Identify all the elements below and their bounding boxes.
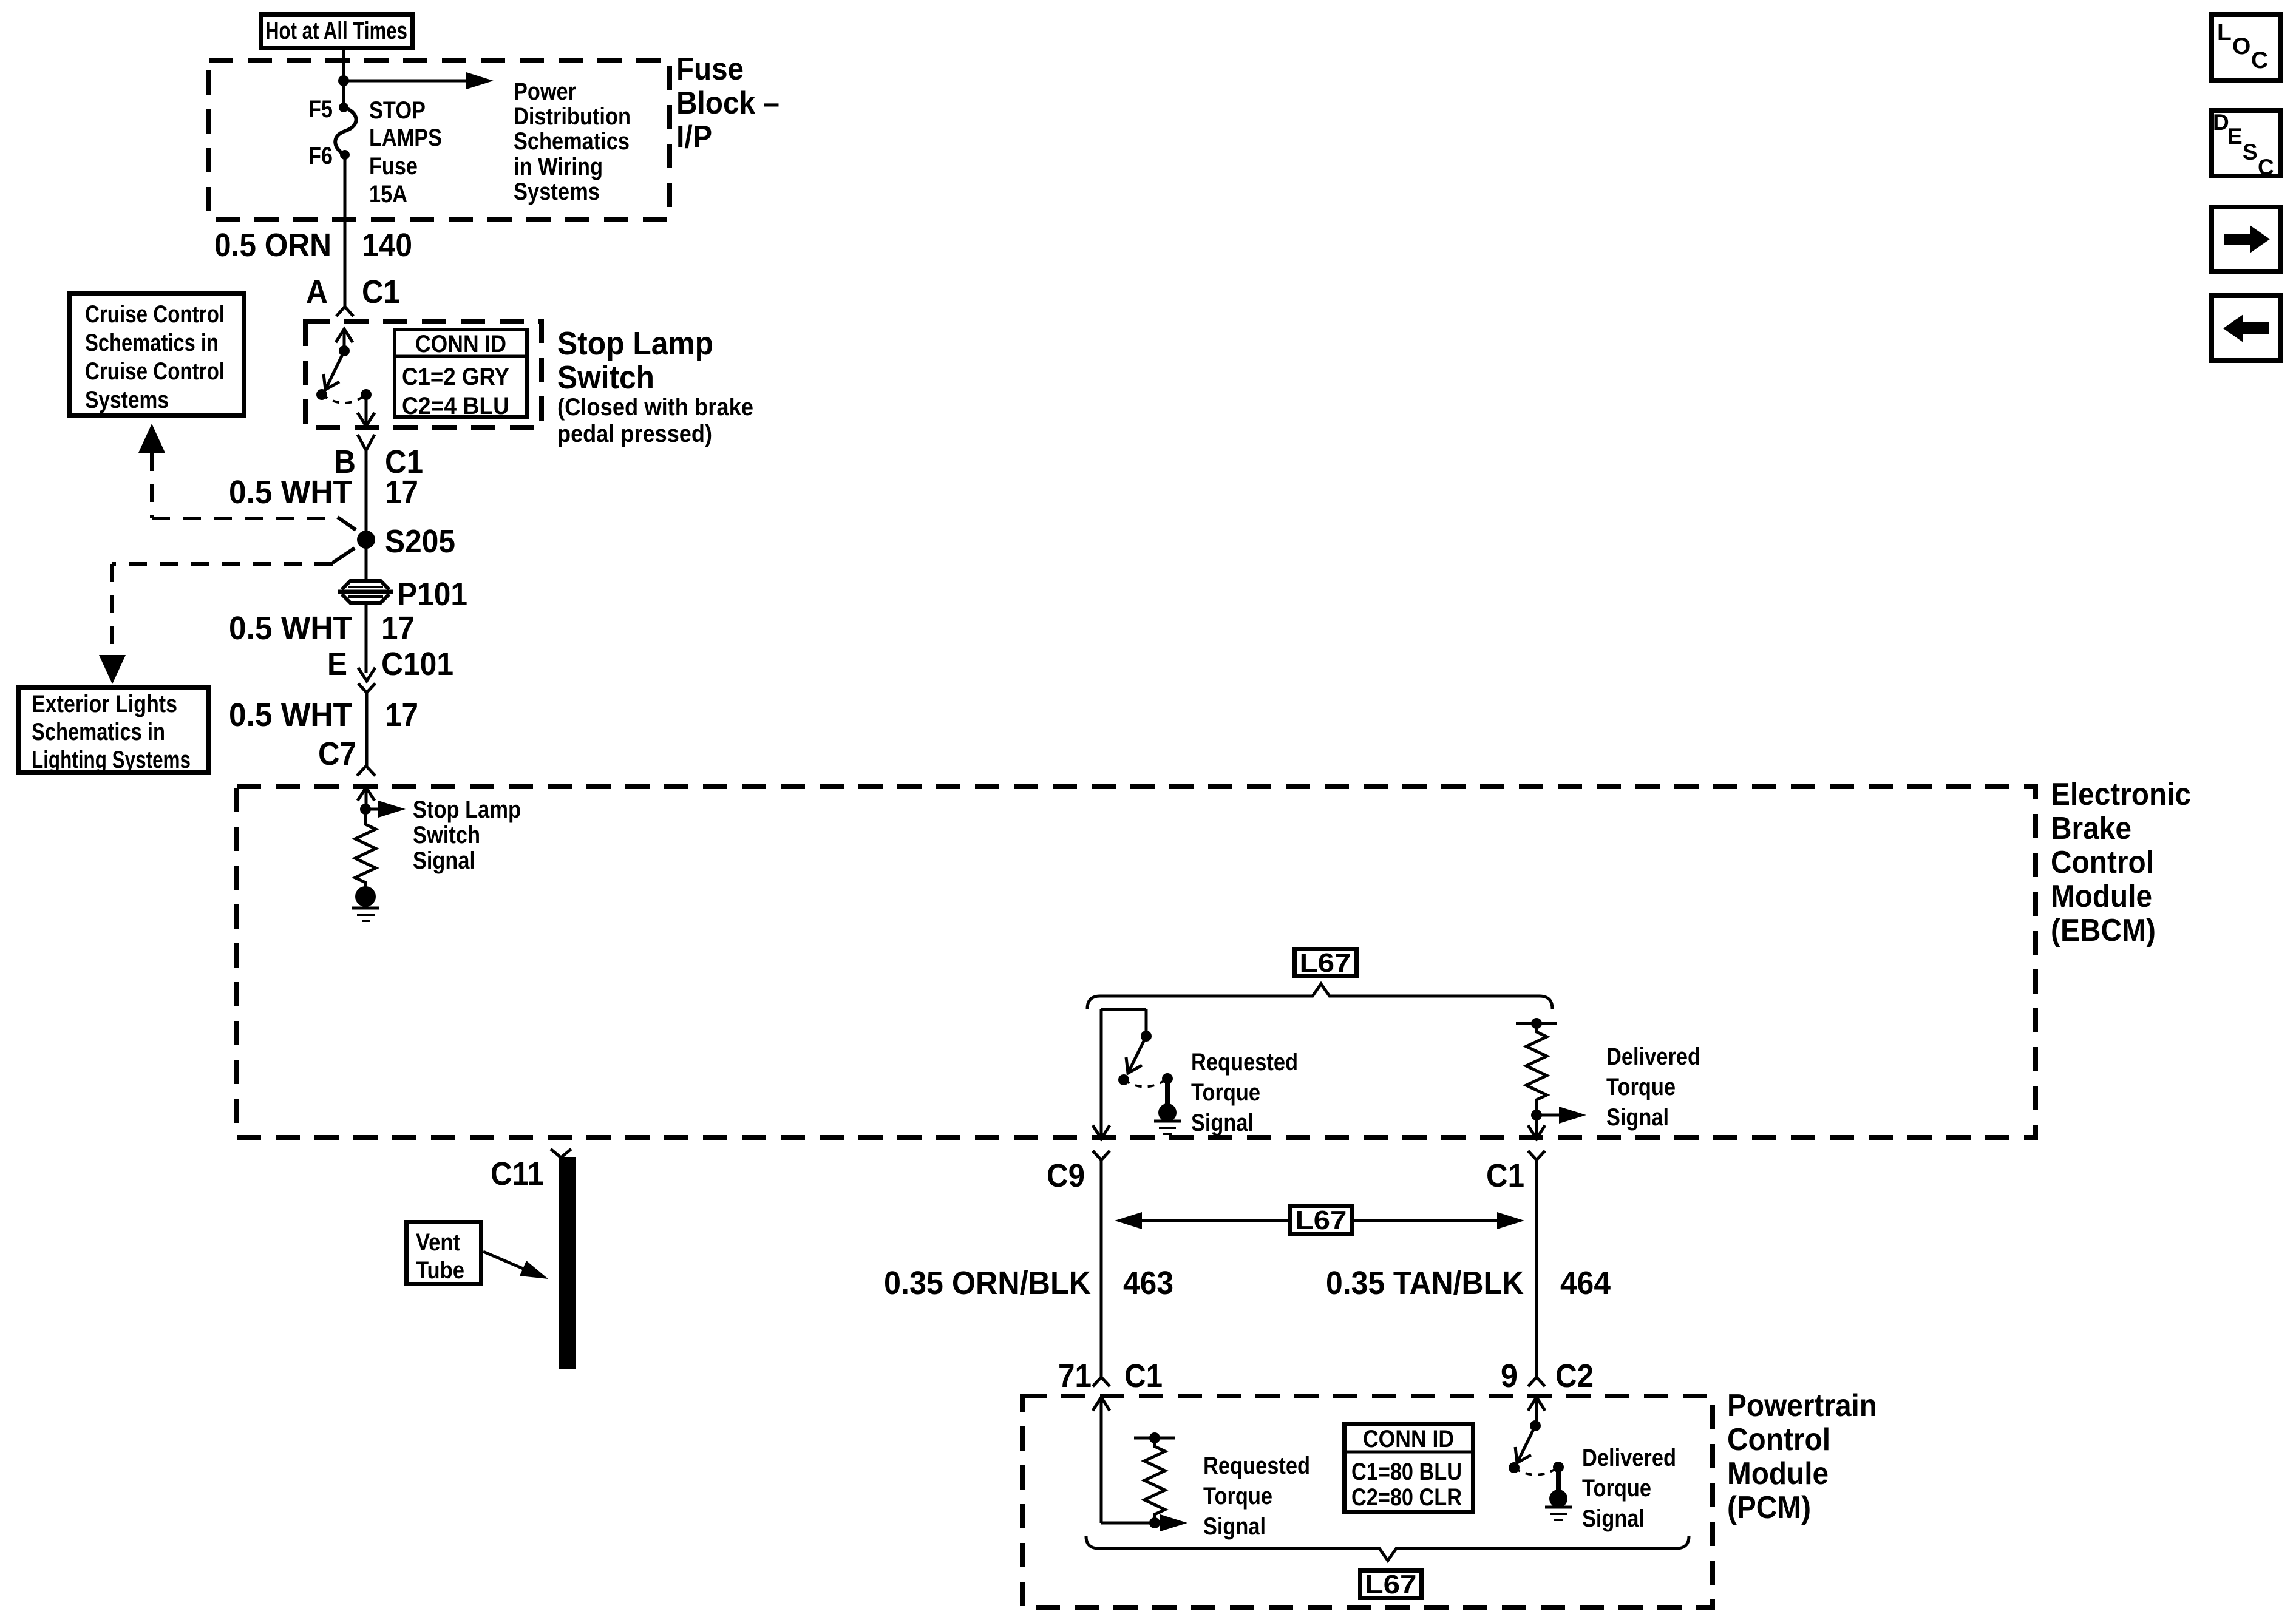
EBCM delivered torque resistor: [1526, 1023, 1547, 1115]
PCM delivered torque ground: [1545, 1490, 1572, 1520]
svg-text:C: C: [2258, 155, 2274, 180]
svg-text:A: A: [306, 274, 328, 310]
svg-text:in Wiring: in Wiring: [514, 154, 603, 180]
svg-text:C2: C2: [1555, 1358, 1594, 1394]
svg-text:Torque: Torque: [1203, 1483, 1272, 1510]
svg-text:0.35 TAN/BLK: 0.35 TAN/BLK: [1326, 1265, 1524, 1301]
svg-text:O: O: [2232, 33, 2250, 59]
PCM requested torque junction dot: [1149, 1517, 1160, 1528]
EBCM requested torque switch common dot: [1141, 1031, 1152, 1042]
grouping brace for L67 signals: [1087, 984, 1552, 1009]
svg-text:Cruise Control: Cruise Control: [85, 301, 225, 328]
svg-text:Switch: Switch: [413, 822, 480, 849]
label Requested Torque Signal (PCM): [1203, 1453, 1310, 1540]
svg-text:Stop Lamp: Stop Lamp: [557, 325, 713, 362]
svg-text:Module: Module: [2051, 879, 2152, 914]
connector C101 female half: [358, 683, 375, 693]
label Electronic Brake Control Module (EBCM): [2051, 777, 2191, 948]
svg-text:Block –: Block –: [676, 86, 779, 121]
EBCM dashed box: [237, 787, 2036, 1137]
connector C1 male arrow into switch: [336, 329, 353, 351]
svg-text:Powertrain: Powertrain: [1727, 1388, 1877, 1423]
PCM delivered torque ground stub: [1556, 1467, 1561, 1490]
svg-text:C11: C11: [491, 1156, 544, 1192]
svg-text:Torque: Torque: [1582, 1475, 1651, 1502]
svg-text:CONN ID: CONN ID: [1363, 1426, 1454, 1453]
icon box previous arrow: [2212, 296, 2281, 361]
svg-text:Signal: Signal: [1203, 1513, 1266, 1540]
wire label 0.5 WHT 17 (upper): [229, 474, 418, 510]
splice S205 dot: [357, 531, 375, 549]
svg-text:(Closed with brake: (Closed with brake: [557, 394, 753, 421]
pin label 9 / connector C2 (PCM): [1501, 1358, 1594, 1394]
svg-text:Systems: Systems: [514, 178, 600, 205]
svg-text:C7: C7: [318, 736, 356, 772]
pin label B / connector C1: [334, 444, 423, 480]
svg-text:Requested: Requested: [1191, 1049, 1298, 1076]
wire label 0.5 WHT 17 (lower): [229, 697, 418, 733]
svg-text:L: L: [2217, 19, 2232, 46]
svg-text:Schematics in: Schematics in: [85, 330, 219, 356]
CONN ID table box (PCM): [1342, 1424, 1475, 1513]
pin label C9: [1047, 1158, 1085, 1194]
node junction to power distribution arrow: [338, 75, 349, 86]
svg-text:Delivered: Delivered: [1606, 1043, 1700, 1070]
svg-text:E: E: [2227, 124, 2243, 149]
PCM delivered torque fixed contact: [1509, 1462, 1520, 1473]
callout box Vent Tube: [407, 1222, 481, 1284]
svg-text:Vent: Vent: [416, 1229, 460, 1256]
pin label E / connector C101: [327, 646, 453, 682]
EBCM requested torque ground: [1154, 1103, 1181, 1134]
svg-text:464: 464: [1560, 1265, 1611, 1301]
svg-text:Brake: Brake: [2051, 811, 2131, 846]
arrow Delivered Torque Signal (EBCM): [1537, 1107, 1586, 1124]
svg-text:0.5 WHT: 0.5 WHT: [229, 474, 352, 510]
svg-text:STOP: STOP: [369, 97, 426, 124]
svg-text:Stop Lamp: Stop Lamp: [413, 796, 521, 823]
connector C11 female mark: [551, 1149, 571, 1158]
svg-text:0.5 WHT: 0.5 WHT: [229, 697, 352, 733]
label Delivered Torque Signal (PCM): [1582, 1445, 1676, 1532]
EBCM requested torque ground stub: [1165, 1079, 1170, 1104]
pointer arrow from Vent Tube box to tube: [483, 1252, 548, 1279]
CONN ID table box (stop lamp switch): [393, 330, 529, 419]
wire circuit 463 (C9 to PCM 71): [1100, 1160, 1103, 1377]
svg-text:Signal: Signal: [1582, 1505, 1645, 1532]
svg-text:C1: C1: [1486, 1158, 1524, 1194]
PCM delivered torque switch arm: [1515, 1426, 1535, 1463]
label Fuse Block - I/P: [676, 52, 779, 155]
svg-text:D: D: [2213, 110, 2229, 135]
svg-text:17: 17: [381, 610, 415, 646]
wire circuit 464 (C1 to PCM 9): [1535, 1160, 1538, 1377]
PCM requested torque resistor top bar: [1134, 1437, 1175, 1440]
svg-text:Lighting Systems: Lighting Systems: [32, 747, 191, 773]
fuse F5 terminal label: [308, 96, 333, 123]
EBCM requested torque switch arc (dashed): [1124, 1079, 1167, 1087]
svg-text:Module: Module: [1727, 1456, 1829, 1491]
svg-text:Schematics: Schematics: [514, 128, 630, 155]
svg-text:C1: C1: [1124, 1358, 1163, 1394]
connector C1 female half (EBCM): [1528, 1151, 1545, 1160]
wire label 0.5 WHT 17 (middle): [229, 610, 415, 646]
EBCM internal ground: [352, 886, 379, 921]
power label box 'Hot at All Times': [261, 15, 412, 48]
EBCM delivered torque resistor top bar: [1516, 1022, 1557, 1025]
EBCM stop lamp input junction dot: [360, 804, 371, 815]
dashed reference arrow to cruise control box: [138, 424, 356, 530]
svg-text:Requested: Requested: [1203, 1453, 1310, 1479]
connector C9 female half: [1093, 1151, 1110, 1160]
wire fuse F6 to connector A/C1: [344, 155, 347, 307]
connector C2 female half at PCM: [1528, 1377, 1545, 1386]
svg-text:S205: S205: [385, 523, 455, 560]
PCM delivered torque switch arc (dashed): [1514, 1467, 1558, 1475]
label STOP LAMPS Fuse 15A: [369, 97, 442, 208]
svg-text:Power: Power: [514, 78, 576, 105]
connector C101 male arrow half: [358, 668, 375, 681]
dashed reference line to exterior lights box: [99, 548, 355, 684]
stop lamp switch fixed contact: [316, 389, 327, 400]
wire C101 to C7: [365, 693, 369, 766]
PCM delivered torque switch common dot: [1530, 1420, 1541, 1431]
harness span arrow with L67 label: [1115, 1205, 1524, 1235]
svg-text:L67: L67: [1300, 948, 1351, 978]
svg-text:Hot at All Times: Hot at All Times: [265, 18, 407, 44]
net label box L67 (top): [1295, 948, 1357, 978]
PCM requested torque resistor: [1144, 1438, 1165, 1523]
svg-text:L67: L67: [1296, 1205, 1347, 1235]
svg-text:C9: C9: [1047, 1158, 1085, 1194]
stop lamp switch arm: [324, 351, 344, 390]
svg-text:0.5 ORN: 0.5 ORN: [214, 227, 331, 263]
svg-text:C2=4 BLU: C2=4 BLU: [402, 393, 509, 419]
stop lamp switch travel arc (dashed): [322, 395, 366, 403]
svg-text:Torque: Torque: [1191, 1079, 1260, 1106]
svg-text:P101: P101: [397, 576, 467, 612]
svg-text:Fuse: Fuse: [676, 52, 744, 87]
svg-text:pedal pressed): pedal pressed): [557, 421, 712, 447]
connector C1 female half (A): [336, 307, 353, 316]
svg-text:C1: C1: [362, 274, 400, 310]
svg-text:Fuse: Fuse: [369, 153, 418, 180]
svg-text:Systems: Systems: [85, 387, 169, 413]
stop lamp switch dashed box: [305, 322, 542, 428]
svg-text:C2=80 CLR: C2=80 CLR: [1351, 1484, 1462, 1511]
svg-text:L67: L67: [1365, 1570, 1417, 1599]
grouping brace for L67 (PCM): [1086, 1536, 1689, 1561]
EBCM requested torque fixed contact: [1118, 1074, 1129, 1085]
svg-text:0.35 ORN/BLK: 0.35 ORN/BLK: [884, 1265, 1091, 1301]
svg-text:S: S: [2243, 140, 2258, 164]
net label box L67 (PCM): [1360, 1570, 1422, 1599]
pin label 71 / connector C1 (PCM): [1058, 1358, 1163, 1394]
wire label 0.5 ORN 140: [214, 227, 412, 263]
fuse F5 terminal dot: [339, 103, 348, 112]
fuse F6 terminal label: [308, 143, 333, 169]
svg-text:Signal: Signal: [413, 847, 475, 874]
svg-text:F6: F6: [308, 143, 333, 169]
connector C1 female half at PCM: [1093, 1377, 1110, 1386]
stop lamp switch common dot: [339, 345, 350, 356]
svg-text:LAMPS: LAMPS: [369, 124, 442, 151]
svg-text:71: 71: [1058, 1358, 1092, 1394]
svg-text:Exterior Lights: Exterior Lights: [32, 691, 177, 717]
svg-text:Tube: Tube: [416, 1257, 464, 1284]
connector C1 male arrow inside PCM: [1093, 1397, 1110, 1411]
svg-text:Switch: Switch: [557, 359, 654, 396]
EBCM requested torque right contact dot: [1162, 1073, 1173, 1084]
connector C7 female half: [357, 766, 375, 776]
stop lamp switch output contact dot: [361, 389, 372, 400]
wire from Hot at All Times into fuse block: [342, 50, 345, 107]
svg-text:F5: F5: [308, 96, 333, 123]
wire label 0.35 ORN/BLK 463: [884, 1265, 1173, 1301]
svg-text:C: C: [2251, 47, 2268, 73]
svg-text:140: 140: [362, 227, 412, 263]
EBCM requested torque switch stub: [1145, 1009, 1148, 1036]
svg-text:C101: C101: [381, 646, 453, 682]
EBCM delivered torque junction dot: [1531, 1110, 1542, 1120]
connector C7 male arrow inside EBCM: [358, 787, 375, 809]
svg-text:9: 9: [1501, 1358, 1518, 1394]
svg-text:Distribution: Distribution: [514, 103, 631, 130]
icon box next arrow: [2212, 207, 2281, 271]
icon box DESC: [2212, 110, 2281, 180]
EBCM input pull resistor: [355, 809, 376, 887]
label Powertrain Control Module (PCM): [1727, 1388, 1877, 1525]
wire label 0.35 TAN/BLK 464: [1326, 1265, 1611, 1301]
EBCM delivered torque top dot: [1531, 1018, 1542, 1029]
svg-text:Signal: Signal: [1191, 1110, 1254, 1136]
grommet label P101: [397, 576, 467, 612]
fuse STOP LAMPS element (S-curve): [335, 107, 356, 155]
icon box LOC: [2212, 15, 2281, 81]
wire switch to S205: [365, 449, 368, 540]
wire delivered torque to EBCM edge: [1528, 1115, 1545, 1139]
svg-text:17: 17: [385, 697, 418, 733]
svg-text:Delivered: Delivered: [1582, 1445, 1676, 1471]
arrow Requested Torque Signal (PCM): [1160, 1514, 1187, 1531]
svg-text:(PCM): (PCM): [1727, 1490, 1811, 1525]
wire S205 to P101: [365, 540, 368, 581]
wire P101 to C101: [365, 602, 368, 673]
EBCM requested torque switch arm: [1126, 1036, 1146, 1073]
connector C2 male arrow inside PCM: [1528, 1397, 1545, 1426]
fuse block dashed box: [209, 61, 670, 219]
connector C1 male arrow out of switch: [358, 395, 375, 426]
wire requested torque (EBCM internal): [1093, 1009, 1146, 1139]
PCM requested torque wire: [1101, 1397, 1178, 1523]
svg-text:(EBCM): (EBCM): [2051, 913, 2156, 948]
svg-text:Control: Control: [2051, 845, 2154, 880]
svg-text:Torque: Torque: [1606, 1074, 1676, 1100]
pin label C1 (EBCM bottom): [1486, 1158, 1524, 1194]
reference box Exterior Lights Schematics: [18, 688, 208, 773]
svg-text:Cruise Control: Cruise Control: [85, 358, 225, 385]
svg-text:Signal: Signal: [1606, 1104, 1669, 1131]
label Stop Lamp Switch (Closed with brake pedal pressed): [557, 325, 753, 447]
svg-text:C1=2 GRY: C1=2 GRY: [402, 364, 509, 390]
svg-text:E: E: [327, 646, 347, 682]
PCM delivered torque right contact dot: [1553, 1462, 1564, 1473]
svg-text:Control: Control: [1727, 1422, 1830, 1457]
svg-text:I/P: I/P: [676, 120, 712, 155]
label Stop Lamp Switch Signal: [413, 796, 521, 874]
label Delivered Torque Signal (EBCM): [1606, 1043, 1700, 1131]
svg-text:463: 463: [1123, 1265, 1173, 1301]
pin label C11: [491, 1156, 544, 1192]
svg-text:15A: 15A: [369, 181, 407, 208]
label Requested Torque Signal (EBCM): [1191, 1049, 1298, 1136]
pin label A / connector C1: [306, 274, 400, 310]
fuse F6 terminal dot: [340, 150, 350, 160]
svg-text:C1=80 BLU: C1=80 BLU: [1351, 1459, 1462, 1485]
PCM dashed box: [1022, 1396, 1713, 1607]
svg-text:0.5 WHT: 0.5 WHT: [229, 610, 352, 646]
pin label C7: [318, 736, 356, 772]
svg-text:Schematics in: Schematics in: [32, 719, 165, 745]
reference box Cruise Control Schematics: [70, 294, 244, 416]
splice label S205: [385, 523, 455, 560]
svg-text:CONN ID: CONN ID: [415, 331, 506, 358]
grommet P101 symbol: [338, 581, 393, 603]
connector C1 female half below switch: [358, 435, 375, 450]
arrow Stop Lamp Switch Signal: [365, 801, 406, 818]
svg-text:17: 17: [385, 474, 418, 510]
PCM requested torque resistor top dot: [1149, 1432, 1160, 1443]
arrow to Power Distribution Schematics: [344, 72, 494, 89]
label Power Distribution Schematics in Wiring Systems: [514, 78, 631, 205]
vent tube solid bar: [559, 1157, 576, 1369]
svg-text:Electronic: Electronic: [2051, 777, 2191, 812]
